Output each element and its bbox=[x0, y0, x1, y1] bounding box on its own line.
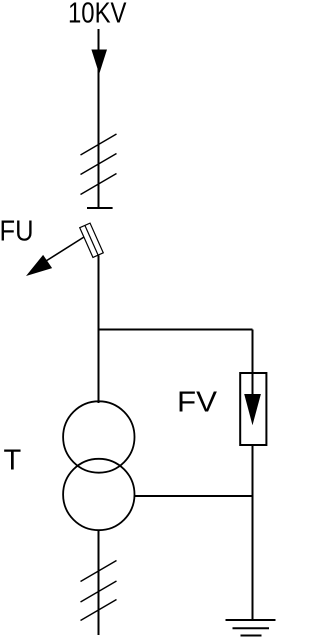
wire: horizontal branch to surge arrester FV bbox=[98, 329, 253, 331]
surge arrester FV internal lead bbox=[252, 373, 254, 396]
ground symbol (earth), bottom bar bbox=[241, 635, 262, 637]
three-phase slash marks (LV side), slash 2 bbox=[81, 581, 117, 602]
wire: arrester branch vertical (bottom, to ground) bbox=[252, 445, 254, 620]
three-phase slash marks (HV side), slash 1 bbox=[81, 134, 117, 155]
fuse FU body (tilted drop-out fuse cartridge) bbox=[80, 223, 104, 257]
wire: transformer LV outgoing (vertical) bbox=[98, 530, 100, 636]
three-phase slash marks (LV side), slash 1 bbox=[81, 561, 117, 582]
svg-text:T: T bbox=[4, 445, 22, 477]
svg-text:FV: FV bbox=[177, 387, 218, 419]
transformer T primary winding (upper circle) bbox=[63, 401, 134, 472]
surge arrester FV body (rectangle) bbox=[240, 373, 266, 445]
power-flow arrow (supply direction, filled) bbox=[91, 50, 107, 75]
wire: fuse output down to transformer bbox=[98, 256, 100, 404]
wire: arrester branch vertical (top) bbox=[252, 330, 254, 374]
three-phase slash marks (LV side), slash 3 bbox=[81, 600, 117, 621]
three-phase slash marks (HV side), slash 3 bbox=[81, 174, 117, 195]
surge arrester FV internal arrow (filled, pointing down) bbox=[244, 394, 261, 425]
ground symbol (earth), middle bar bbox=[233, 627, 270, 629]
svg-text:10KV: 10KV bbox=[68, 0, 127, 30]
fuse FU drop-out direction arrow (shaft) bbox=[46, 237, 84, 261]
wire: 10KV incoming feeder (vertical drop) bbox=[98, 29, 100, 208]
ground symbol (earth), top bar bbox=[226, 619, 276, 621]
three-phase slash marks (HV side), slash 2 bbox=[81, 154, 117, 175]
svg-text:FU: FU bbox=[0, 216, 34, 248]
transformer T secondary winding (lower circle) bbox=[63, 459, 134, 530]
fuse FU drop-out direction arrow (head) bbox=[26, 255, 52, 276]
wire: secondary winding to arrester ground lead bbox=[134, 495, 253, 497]
fuse FU fixed top contact bar bbox=[87, 207, 113, 209]
